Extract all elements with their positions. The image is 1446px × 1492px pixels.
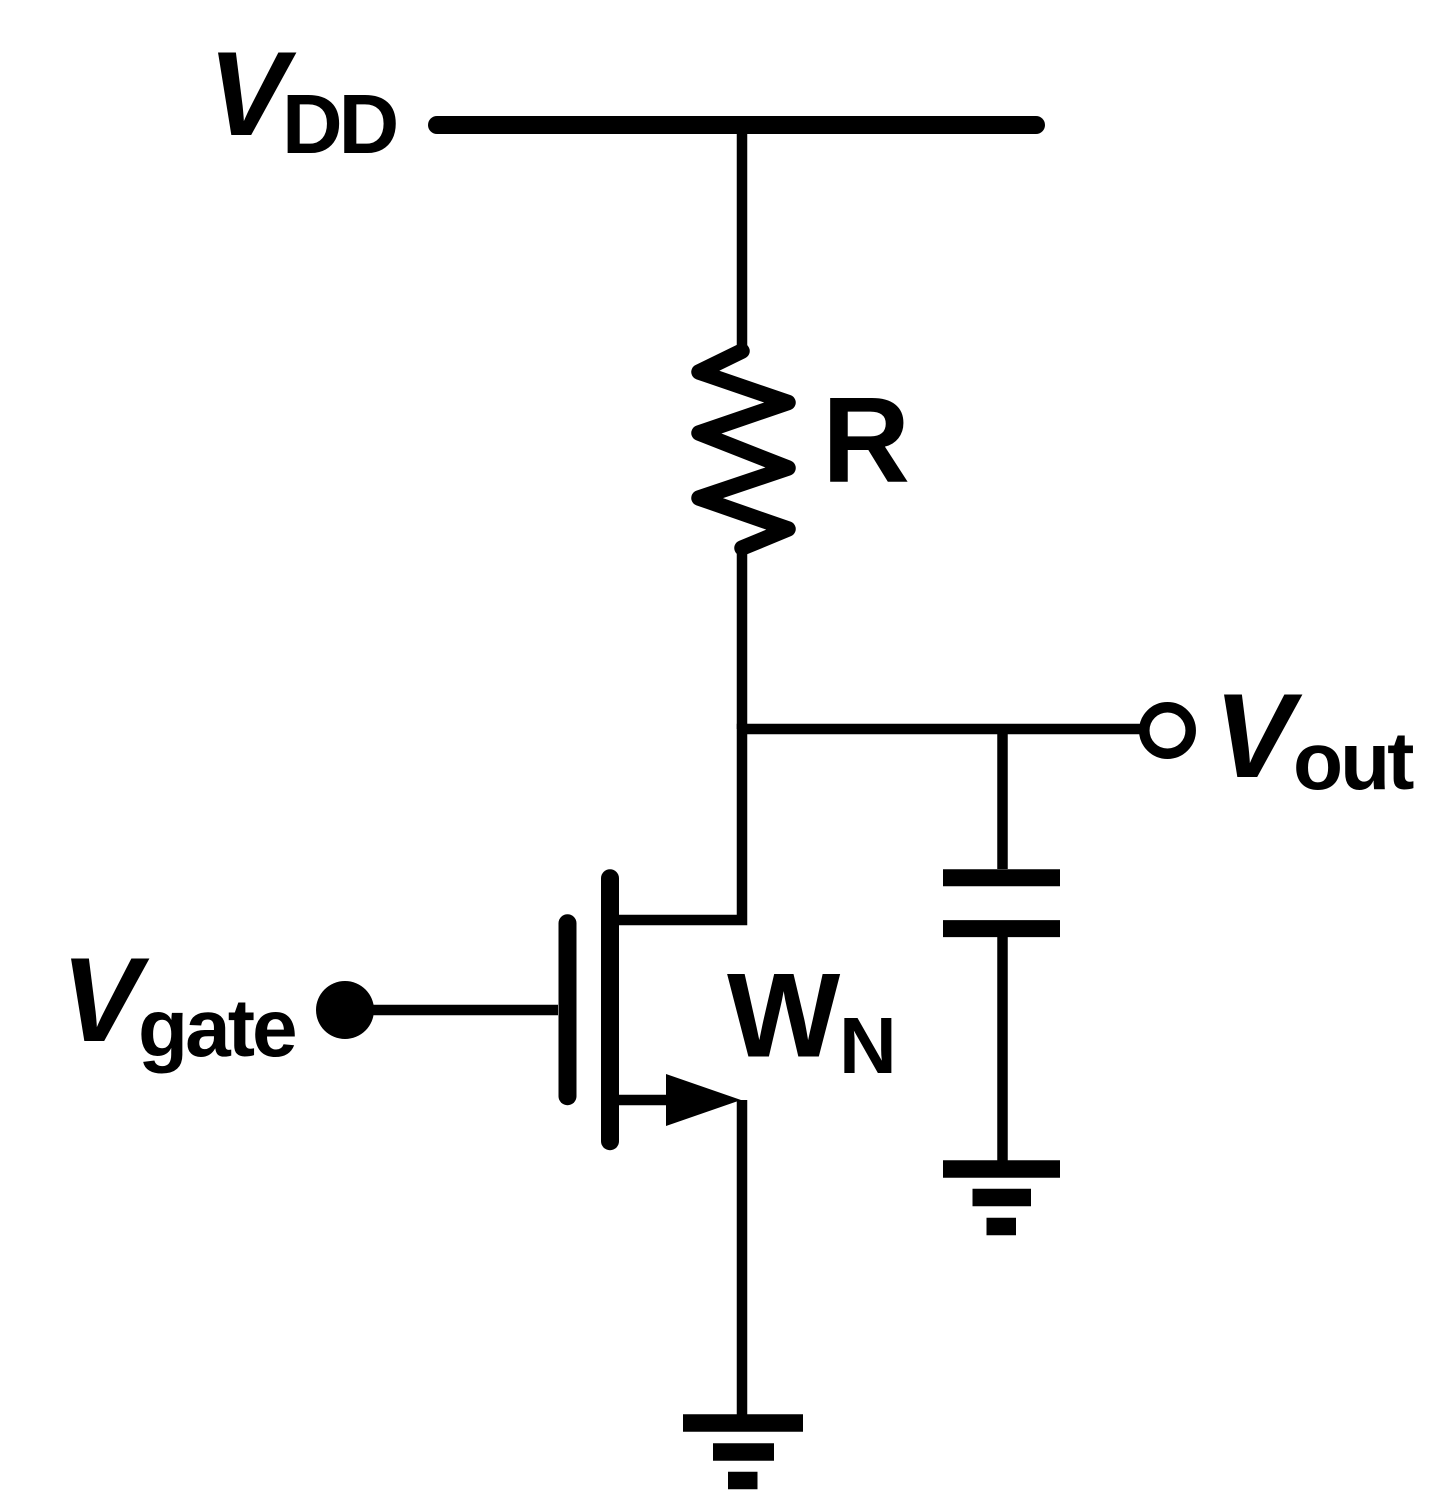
svg-text:V: V xyxy=(1214,669,1303,803)
svg-text:DD: DD xyxy=(282,77,397,171)
svg-text:W: W xyxy=(727,949,841,1083)
svg-text:out: out xyxy=(1293,716,1414,807)
svg-text:gate: gate xyxy=(138,983,295,1074)
svg-text:N: N xyxy=(839,1001,897,1090)
svg-text:V: V xyxy=(61,933,150,1067)
svg-text:R: R xyxy=(822,372,910,508)
